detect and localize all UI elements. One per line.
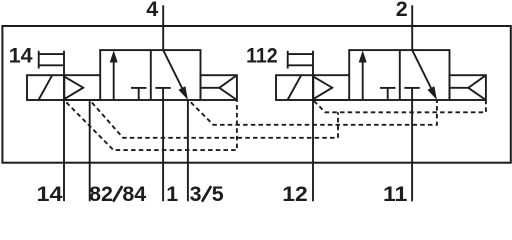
pilot flag 112 bottom edge [288, 64, 313, 66]
svg-text:2: 2 [396, 0, 408, 21]
svg-text:5: 5 [212, 182, 224, 204]
pilot triangle [64, 77, 83, 100]
port 14 vertical line [63, 51, 65, 202]
port 12 vertical line [312, 51, 314, 202]
pilot box top edge [64, 74, 100, 76]
slash of 82/84 [113, 186, 122, 202]
pilot box bottom edge [313, 99, 349, 101]
svg-text:82: 82 [89, 182, 113, 204]
svg-text:11: 11 [383, 182, 407, 204]
svg-text:4: 4 [146, 0, 158, 21]
exhaust line: port 3/5 to valve2 exhaust node [189, 100, 437, 125]
flow arrow up, stem [362, 60, 364, 100]
solenoid coil diagonal [288, 75, 302, 100]
slash of 3/5 [202, 186, 211, 202]
spring triangle [219, 75, 237, 100]
spring mid line [450, 87, 469, 89]
valve body divider [399, 50, 401, 100]
pilot box bottom edge [64, 99, 100, 101]
blocked port T1 bar [131, 87, 146, 89]
pilot flag 112 top edge [288, 53, 313, 55]
solenoid coil box [276, 75, 313, 100]
svg-text:12: 12 [282, 182, 308, 204]
svg-text:3: 3 [190, 182, 202, 204]
solenoid coil diagonal [39, 75, 53, 100]
pilot line: valve2 pilot node to spring box 2 [313, 100, 486, 112]
manifold outer box [2, 26, 510, 163]
flow arrow diagonal, head [178, 86, 188, 100]
flow arrow diagonal, line [412, 50, 432, 91]
port 2 riser [411, 5, 413, 50]
svg-text:1: 1 [166, 182, 178, 204]
svg-text:112: 112 [246, 43, 278, 67]
port 1 line [162, 88, 164, 201]
pilot box top edge [313, 74, 349, 76]
blocked port T3 bar [380, 87, 395, 89]
port 82/84 line [89, 100, 91, 201]
spring mid line [201, 87, 220, 89]
valve body divider [150, 50, 152, 100]
spring triangle [468, 75, 486, 100]
svg-text:14: 14 [9, 43, 33, 67]
pilot line: port 82/84 to junction [90, 100, 338, 138]
valve body [100, 50, 200, 100]
pilot flag 14 top edge [39, 53, 64, 55]
flow arrow up, head [359, 50, 367, 62]
flow arrow diagonal, head [427, 86, 437, 100]
pilot flag 14 bottom edge [39, 64, 64, 66]
port 4 riser [162, 5, 164, 50]
pilot flag 14 left edge [38, 51, 40, 69]
pilot line: valve1 pilot node to spring box 1 [64, 100, 237, 150]
blocked port T2 bar [155, 87, 170, 89]
spring box [450, 75, 486, 100]
spring box [201, 75, 237, 100]
flow arrow diagonal, line [163, 50, 183, 91]
blocked port T4 bar [404, 87, 419, 89]
valve body [349, 50, 449, 100]
port 11 line [411, 88, 413, 201]
pilot flag 112 left edge [287, 51, 289, 69]
svg-text:84: 84 [122, 182, 146, 204]
blocked port T1 stem [138, 88, 140, 100]
svg-text:14: 14 [37, 182, 63, 204]
solenoid coil box [27, 75, 64, 100]
blocked port T3 stem [387, 88, 389, 100]
port 3/5 line [187, 100, 189, 201]
flow arrow up, head [110, 50, 118, 62]
junction riser [337, 112, 339, 138]
flow arrow up, stem [113, 60, 115, 100]
pilot triangle [313, 77, 332, 100]
